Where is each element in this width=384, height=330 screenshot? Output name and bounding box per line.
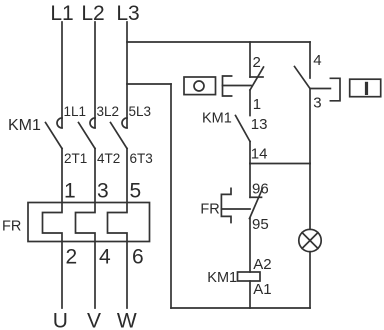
wire tee to FR contact — [249, 164, 251, 198]
wire bottom control rail — [171, 307, 310, 309]
svg-text:4: 4 — [99, 246, 111, 269]
thermal relay FR label — [2, 219, 21, 235]
svg-text:13: 13 — [251, 116, 268, 133]
svg-text:W: W — [117, 310, 137, 330]
svg-text:KM1: KM1 — [202, 111, 232, 127]
wire top control rail from L3 — [127, 41, 310, 43]
start button SB2 head — [350, 79, 381, 97]
pin number 3 — [313, 95, 321, 112]
stop contact NC pins 2-1 — [250, 67, 264, 90]
wire control tap from L3 to left conductor — [127, 83, 171, 85]
svg-text:KM1: KM1 — [8, 117, 41, 134]
svg-text:6: 6 — [132, 246, 144, 269]
svg-text:L3: L3 — [116, 2, 139, 25]
wire left control conductor — [170, 84, 172, 308]
svg-text:U: U — [53, 310, 68, 330]
start button SB2 actuator link — [311, 88, 331, 90]
pin number 14 — [251, 145, 268, 162]
indicator lamp — [299, 229, 321, 251]
contactor KM1 main contact pole 1 — [46, 118, 63, 149]
terminal V — [87, 310, 101, 330]
pin label 5L3 — [129, 104, 152, 119]
svg-text:1L1: 1L1 — [64, 104, 87, 119]
svg-text:14: 14 — [251, 145, 268, 162]
pin number 1 — [64, 180, 76, 203]
pin number 2 — [66, 246, 78, 269]
FR trip mechanism symbol — [221, 188, 250, 222]
contactor KM1 main contact pole 3 — [111, 118, 128, 149]
pin label 2T1 — [64, 151, 87, 166]
pin number 5 — [130, 180, 142, 203]
wire lamp to bottom rail — [309, 252, 311, 308]
pin number 4 — [313, 52, 321, 69]
svg-text:A1: A1 — [253, 281, 271, 298]
stop button SB1 plunger bracket — [223, 76, 232, 96]
pin number 6 — [132, 246, 144, 269]
svg-text:FR: FR — [2, 219, 21, 235]
svg-text:5: 5 — [130, 180, 142, 203]
pin number 13 — [251, 116, 268, 133]
svg-text:1: 1 — [253, 96, 261, 113]
wire pole 2 with FR heater element 2 — [76, 149, 96, 309]
node L1 label — [50, 2, 73, 25]
pin label 1L1 — [64, 104, 87, 119]
svg-text:V: V — [87, 310, 101, 330]
pin number 2 (stop) — [253, 54, 261, 71]
pin number 1 (stop) — [253, 96, 261, 113]
KM1 aux contact NO pins 13-14 — [236, 116, 251, 142]
pin label 4T2 — [97, 151, 120, 166]
pin label A2 — [253, 256, 271, 273]
coil KM1 label — [207, 270, 237, 286]
node L3 label — [116, 2, 139, 25]
wire pole 1 with FR heater element 1 — [43, 149, 63, 309]
wire start contact to tee — [309, 89, 311, 164]
pin number 3 — [97, 180, 109, 203]
pin label 6T3 — [130, 151, 153, 166]
wire L1 down to KM1 pole 1 — [61, 22, 63, 128]
wire rail to start contact — [309, 42, 311, 78]
wire pole 3 with FR heater element 3 — [108, 149, 128, 309]
svg-text:6T3: 6T3 — [130, 151, 153, 166]
svg-text:95: 95 — [252, 216, 269, 233]
pin number 4 — [99, 246, 111, 269]
svg-text:5L3: 5L3 — [129, 104, 152, 119]
wire L3 down to KM1 pole 3 — [126, 22, 128, 128]
node L2 label — [81, 2, 104, 25]
svg-text:3: 3 — [97, 180, 109, 203]
wire KM1 aux to tee — [249, 142, 251, 164]
stop button SB1 head — [184, 77, 216, 95]
start contact NO pins 4-3 — [295, 67, 311, 89]
terminal W — [117, 310, 137, 330]
svg-text:3: 3 — [313, 95, 321, 112]
svg-text:FR: FR — [200, 202, 219, 218]
contactor KM1 main contact pole 2 — [79, 118, 96, 149]
wire coil to bottom rail — [249, 281, 251, 308]
thermal relay FR box — [28, 203, 150, 242]
pin number 96 — [252, 181, 269, 198]
thermal relay FR label (control) — [200, 202, 219, 218]
svg-text:A2: A2 — [253, 256, 271, 273]
svg-text:2T1: 2T1 — [64, 151, 87, 166]
svg-text:2: 2 — [253, 54, 261, 71]
pin label 3L2 — [97, 104, 120, 119]
FR contact NC pins 96-95 — [250, 189, 263, 219]
wire rail to stop contact — [249, 42, 251, 77]
svg-text:4: 4 — [313, 52, 321, 69]
wire FR to coil — [249, 219, 251, 273]
svg-text:96: 96 — [252, 181, 269, 198]
contactor KM1 label (main) — [8, 117, 41, 134]
svg-text:L2: L2 — [81, 2, 104, 25]
stop button SB1 actuator link — [223, 85, 252, 87]
svg-text:2: 2 — [66, 246, 78, 269]
start button SB2 plunger bracket — [330, 78, 340, 101]
wire stop to KM1 aux — [249, 90, 251, 116]
wire tee to lamp branch — [250, 163, 310, 165]
svg-text:KM1: KM1 — [207, 270, 237, 286]
svg-text:4T2: 4T2 — [97, 151, 120, 166]
svg-text:3L2: 3L2 — [97, 104, 120, 119]
contactor KM1 label (aux) — [202, 111, 232, 127]
coil KM1 — [238, 272, 261, 281]
wire L2 down to KM1 pole 2 — [94, 22, 96, 128]
terminal U — [53, 310, 68, 330]
svg-text:1: 1 — [64, 180, 76, 203]
pin label A1 — [253, 281, 271, 298]
wire tee to lamp — [309, 164, 311, 230]
pin number 95 — [252, 216, 269, 233]
